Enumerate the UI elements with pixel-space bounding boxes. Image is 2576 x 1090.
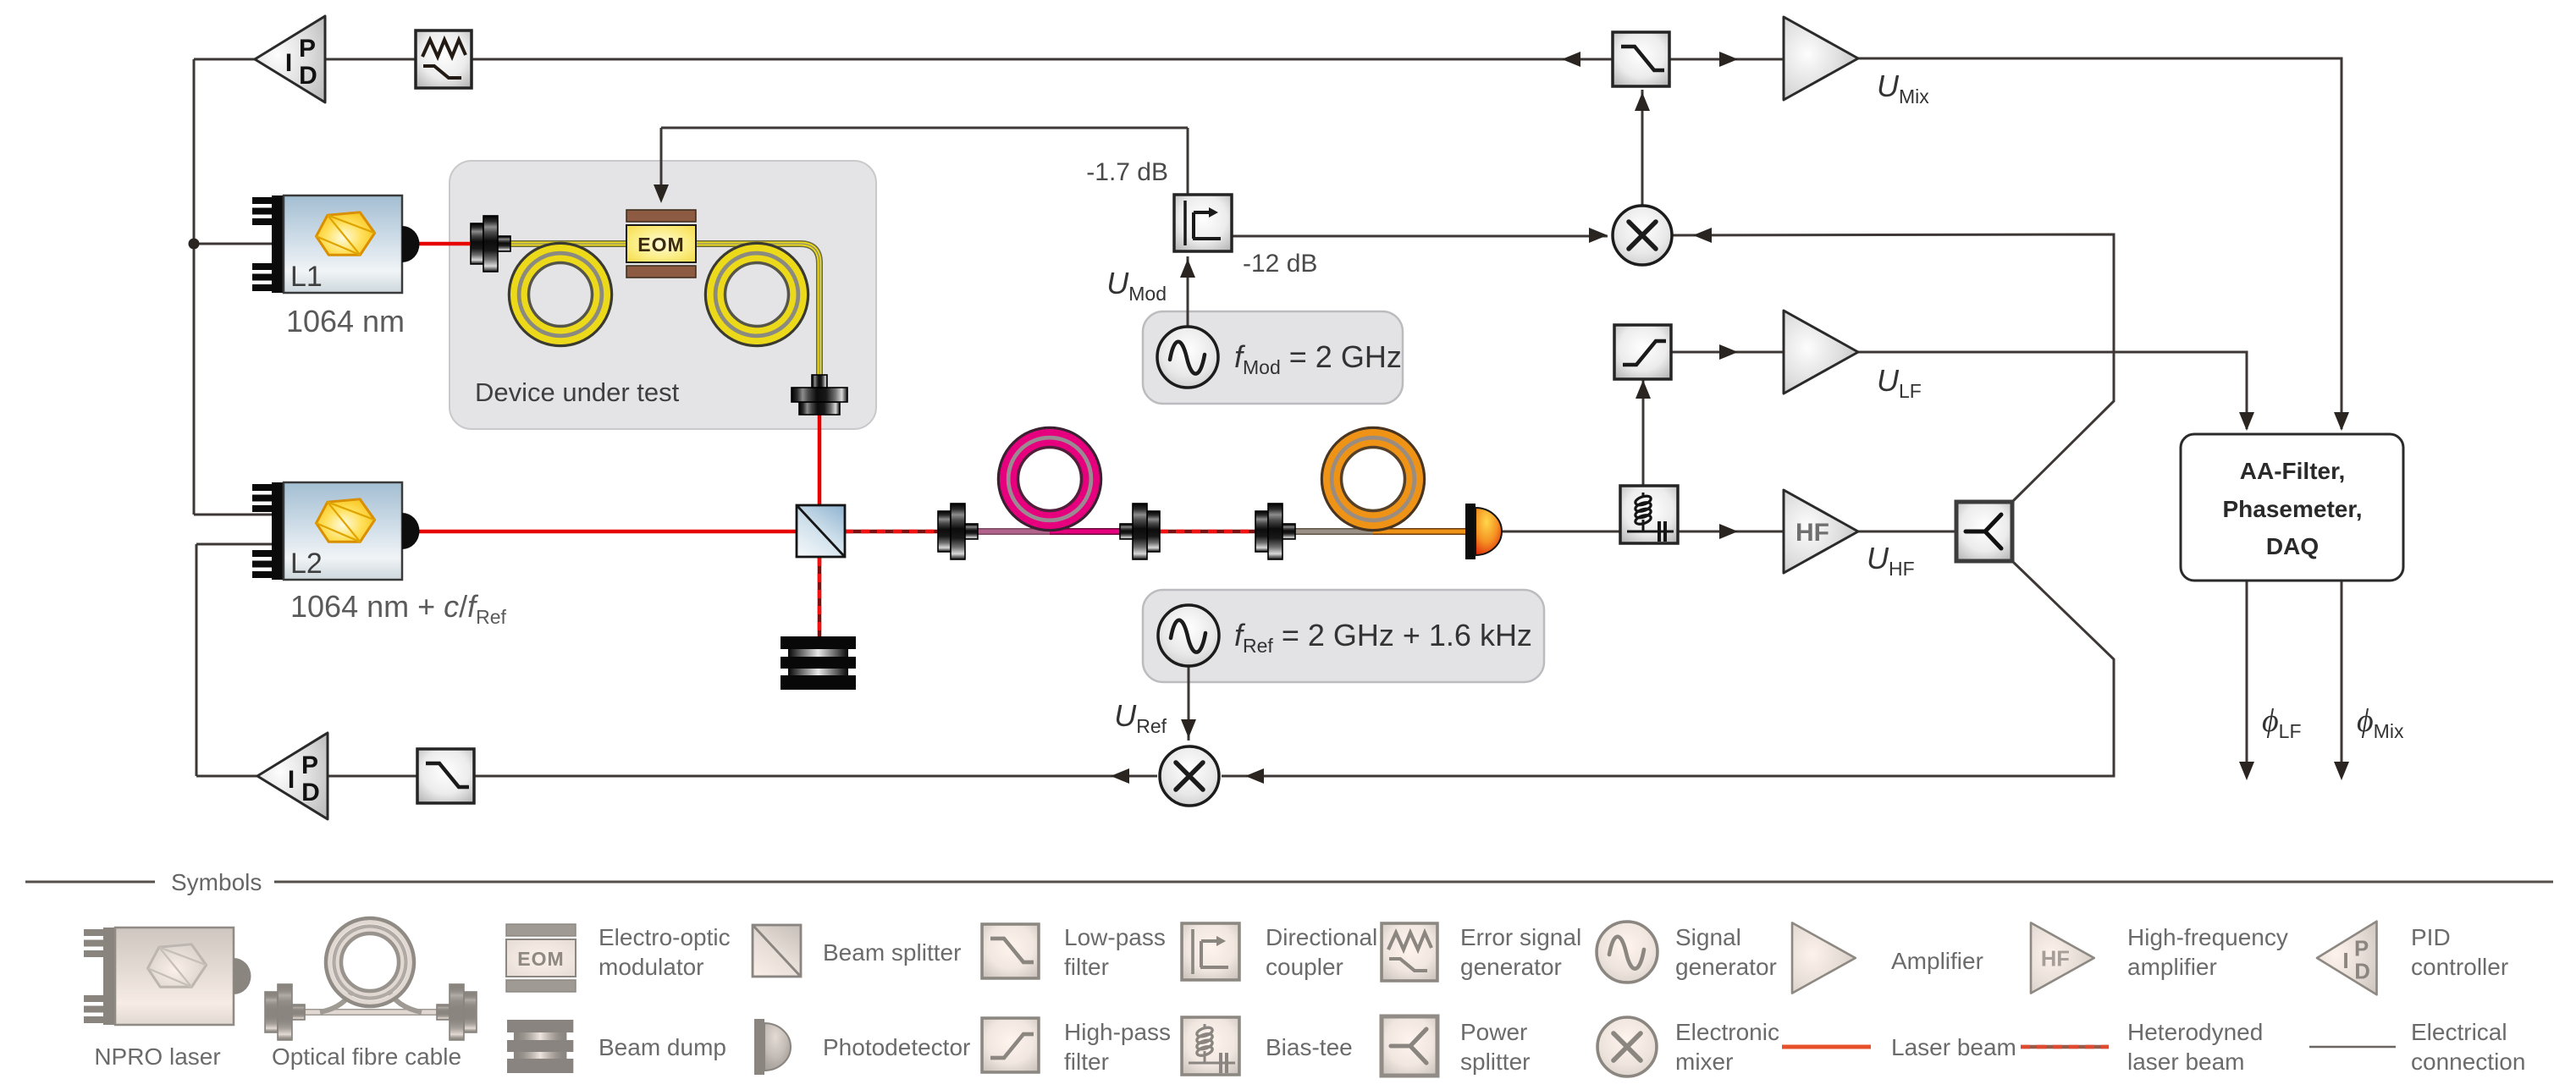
svg-text:1064 nm + c/fRef: 1064 nm + c/fRef <box>290 589 507 628</box>
svg-text:Electronic: Electronic <box>1675 1019 1779 1045</box>
svg-text:-12 dB: -12 dB <box>1243 250 1317 278</box>
svg-text:splitter: splitter <box>1460 1049 1530 1075</box>
svg-text:L2: L2 <box>290 548 323 580</box>
svg-text:PID: PID <box>2411 924 2451 950</box>
svg-text:controller: controller <box>2411 954 2508 980</box>
svg-text:Laser beam: Laser beam <box>1891 1034 2016 1060</box>
svg-text:Beam splitter: Beam splitter <box>823 939 961 966</box>
svg-text:Optical fibre cable: Optical fibre cable <box>272 1043 461 1070</box>
svg-text:DAQ: DAQ <box>2266 533 2319 559</box>
svg-text:coupler: coupler <box>1266 954 1343 980</box>
svg-text:Phasemeter,: Phasemeter, <box>2223 496 2363 522</box>
svg-text:filter: filter <box>1064 1049 1109 1075</box>
svg-text:1064 nm: 1064 nm <box>286 304 405 339</box>
svg-text:fRef = 2 GHz + 1.6 kHz: fRef = 2 GHz + 1.6 kHz <box>1234 618 1532 657</box>
svg-text:Error signal: Error signal <box>1460 924 1581 950</box>
svg-text:Electro-optic: Electro-optic <box>598 924 731 950</box>
svg-text:Beam dump: Beam dump <box>598 1034 726 1060</box>
svg-text:-1.7 dB: -1.7 dB <box>1086 158 1168 186</box>
svg-text:Power: Power <box>1460 1019 1527 1045</box>
svg-text:AA-Filter,: AA-Filter, <box>2240 458 2345 484</box>
svg-text:Electrical: Electrical <box>2411 1019 2507 1045</box>
svg-text:amplifier: amplifier <box>2127 954 2217 980</box>
svg-text:laser beam: laser beam <box>2127 1049 2245 1075</box>
svg-text:Heterodyned: Heterodyned <box>2127 1019 2263 1045</box>
svg-text:Signal: Signal <box>1675 924 1741 950</box>
svg-text:Low-pass: Low-pass <box>1064 924 1166 950</box>
svg-text:L1: L1 <box>290 261 323 293</box>
svg-text:High-frequency: High-frequency <box>2127 924 2288 950</box>
svg-text:mixer: mixer <box>1675 1049 1733 1075</box>
svg-text:Device under test: Device under test <box>475 377 680 407</box>
svg-text:Photodetector: Photodetector <box>823 1034 970 1060</box>
svg-text:connection: connection <box>2411 1049 2525 1075</box>
svg-text:Bias-tee: Bias-tee <box>1266 1034 1353 1060</box>
svg-text:filter: filter <box>1064 954 1109 980</box>
svg-text:generator: generator <box>1675 954 1777 980</box>
svg-text:Symbols: Symbols <box>171 869 262 895</box>
svg-text:Amplifier: Amplifier <box>1891 948 1983 974</box>
svg-text:High-pass: High-pass <box>1064 1019 1171 1045</box>
svg-text:generator: generator <box>1460 954 1562 980</box>
svg-text:NPRO laser: NPRO laser <box>94 1043 220 1070</box>
svg-text:Directional: Directional <box>1266 924 1377 950</box>
svg-text:modulator: modulator <box>598 954 704 980</box>
